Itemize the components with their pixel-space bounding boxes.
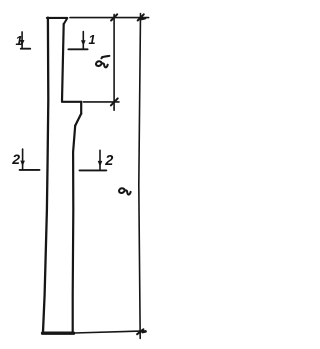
svg-text:2: 2	[104, 153, 113, 169]
tick at step l1	[111, 98, 118, 105]
column upper right edge	[62, 24, 64, 101]
dimension extension line l1 (vertical)	[113, 14, 115, 110]
column left edge	[43, 18, 48, 332]
section 2 left: arrow stroke	[22, 149, 24, 169]
svg-text:1: 1	[16, 34, 23, 48]
label l: ell glyph (rotated script l), dimension l	[119, 188, 131, 194]
svg-text:1: 1	[89, 33, 96, 47]
column step top edge	[62, 101, 81, 103]
column lower right edge	[73, 126, 76, 332]
column top-right chamfer	[64, 18, 67, 24]
svg-text:2: 2	[11, 151, 20, 167]
column top edge	[47, 17, 67, 19]
section 1 left: trace line	[21, 48, 30, 50]
section 1 left: arrow stroke	[21, 32, 23, 48]
section 2 left: trace line	[20, 169, 40, 171]
section 2 left: arrowhead	[20, 161, 25, 167]
dimension extension line l (vertical)	[139, 14, 141, 339]
section 1 left: arrowhead	[20, 40, 25, 46]
label l1: ell glyph (rotated script l), dimension l1	[96, 56, 109, 67]
speckle dot below step tick	[113, 107, 115, 109]
dimension line at step (l1 bottom)	[84, 101, 120, 103]
dimension line bottom	[74, 331, 146, 333]
section 2 middle: arrowhead	[98, 161, 103, 167]
section 1 middle: trace line	[68, 48, 87, 50]
column bottom thick bar	[43, 332, 74, 335]
tick at top l	[138, 14, 144, 20]
section 1 middle: arrowhead	[81, 40, 86, 46]
column step right edge	[80, 102, 82, 114]
section 2 middle: arrow stroke	[99, 150, 101, 170]
ink blob at bottom tick	[142, 330, 145, 333]
label l1: subscript 1 (rotated)	[101, 57, 102, 58]
dimension line top	[70, 17, 149, 19]
section 2 middle: trace line	[80, 169, 107, 171]
column taper diagonal	[75, 114, 81, 126]
tick at top l1	[111, 14, 117, 20]
section 1 middle: arrow stroke	[82, 32, 84, 49]
tick at bottom l	[137, 329, 143, 334]
ink blob at top-right tick	[142, 17, 146, 20]
